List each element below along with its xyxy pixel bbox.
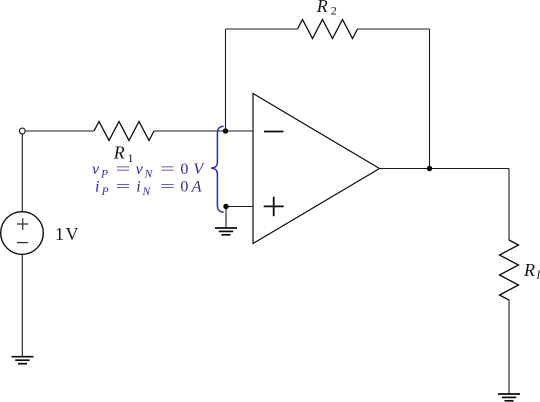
- svg-text:=: =: [160, 161, 175, 178]
- wire source to ground: [21, 254, 23, 356]
- wire feedback right vertical down: [429, 29, 431, 169]
- svg-text:0: 0: [180, 178, 188, 195]
- node P junction dot: [223, 204, 228, 209]
- node N junction dot: [223, 128, 228, 133]
- wire R2 to right vertical: [358, 28, 430, 30]
- svg-text:l: l: [537, 267, 540, 282]
- resistor Rl: [500, 240, 519, 300]
- svg-text:v: v: [136, 161, 144, 178]
- brace (blue): [211, 126, 223, 212]
- svg-text:R: R: [523, 260, 535, 280]
- svg-text:=: =: [160, 178, 175, 195]
- op-amp plus marker: [264, 205, 284, 207]
- node out junction dot: [427, 166, 432, 171]
- wire plus input: [226, 206, 253, 208]
- op-amp U1 triangle: [253, 94, 380, 244]
- svg-text:P: P: [101, 186, 109, 198]
- voltage source V1 circle: [1, 212, 44, 255]
- wire terminal down to source: [21, 134, 23, 212]
- wire op-amp output: [380, 168, 510, 170]
- wire Rl to ground: [508, 300, 510, 394]
- wire top left to R2: [226, 28, 298, 30]
- svg-text:v: v: [92, 161, 100, 178]
- wire node N up to feedback: [225, 29, 227, 131]
- wire R1 to op-amp minus input: [154, 130, 253, 132]
- svg-text:2: 2: [331, 4, 337, 18]
- wire input horizontal left: [25, 130, 94, 132]
- wire node P to ground: [225, 207, 227, 228]
- svg-text:1V: 1V: [55, 224, 80, 244]
- svg-text:N: N: [144, 169, 154, 181]
- resistor R1: [94, 122, 154, 141]
- svg-text:P: P: [100, 169, 108, 181]
- svg-text:A: A: [191, 178, 202, 195]
- annotation line iP = iN = 0 A (blue): [95, 178, 202, 198]
- svg-text:N: N: [142, 186, 152, 198]
- input terminal open circle: [19, 128, 25, 134]
- svg-text:=: =: [116, 178, 131, 195]
- svg-text:V: V: [193, 161, 205, 178]
- voltage source plus sign: [17, 218, 28, 242]
- ground (bottom right): [498, 394, 520, 401]
- resistor R2: [298, 20, 358, 39]
- op-amp minus marker: [264, 131, 284, 133]
- svg-text:R: R: [113, 143, 125, 163]
- svg-text:=: =: [116, 161, 131, 178]
- svg-text:0: 0: [180, 161, 188, 178]
- annotation line vP = vN = 0 V (blue): [92, 161, 205, 181]
- ground (bottom left): [12, 357, 34, 364]
- wire output down to Rl: [508, 169, 510, 241]
- svg-text:i: i: [95, 178, 99, 195]
- ground (op-amp plus input): [215, 228, 237, 235]
- svg-text:i: i: [136, 178, 140, 195]
- voltage source minus sign: [17, 242, 28, 244]
- svg-text:R: R: [316, 0, 328, 16]
